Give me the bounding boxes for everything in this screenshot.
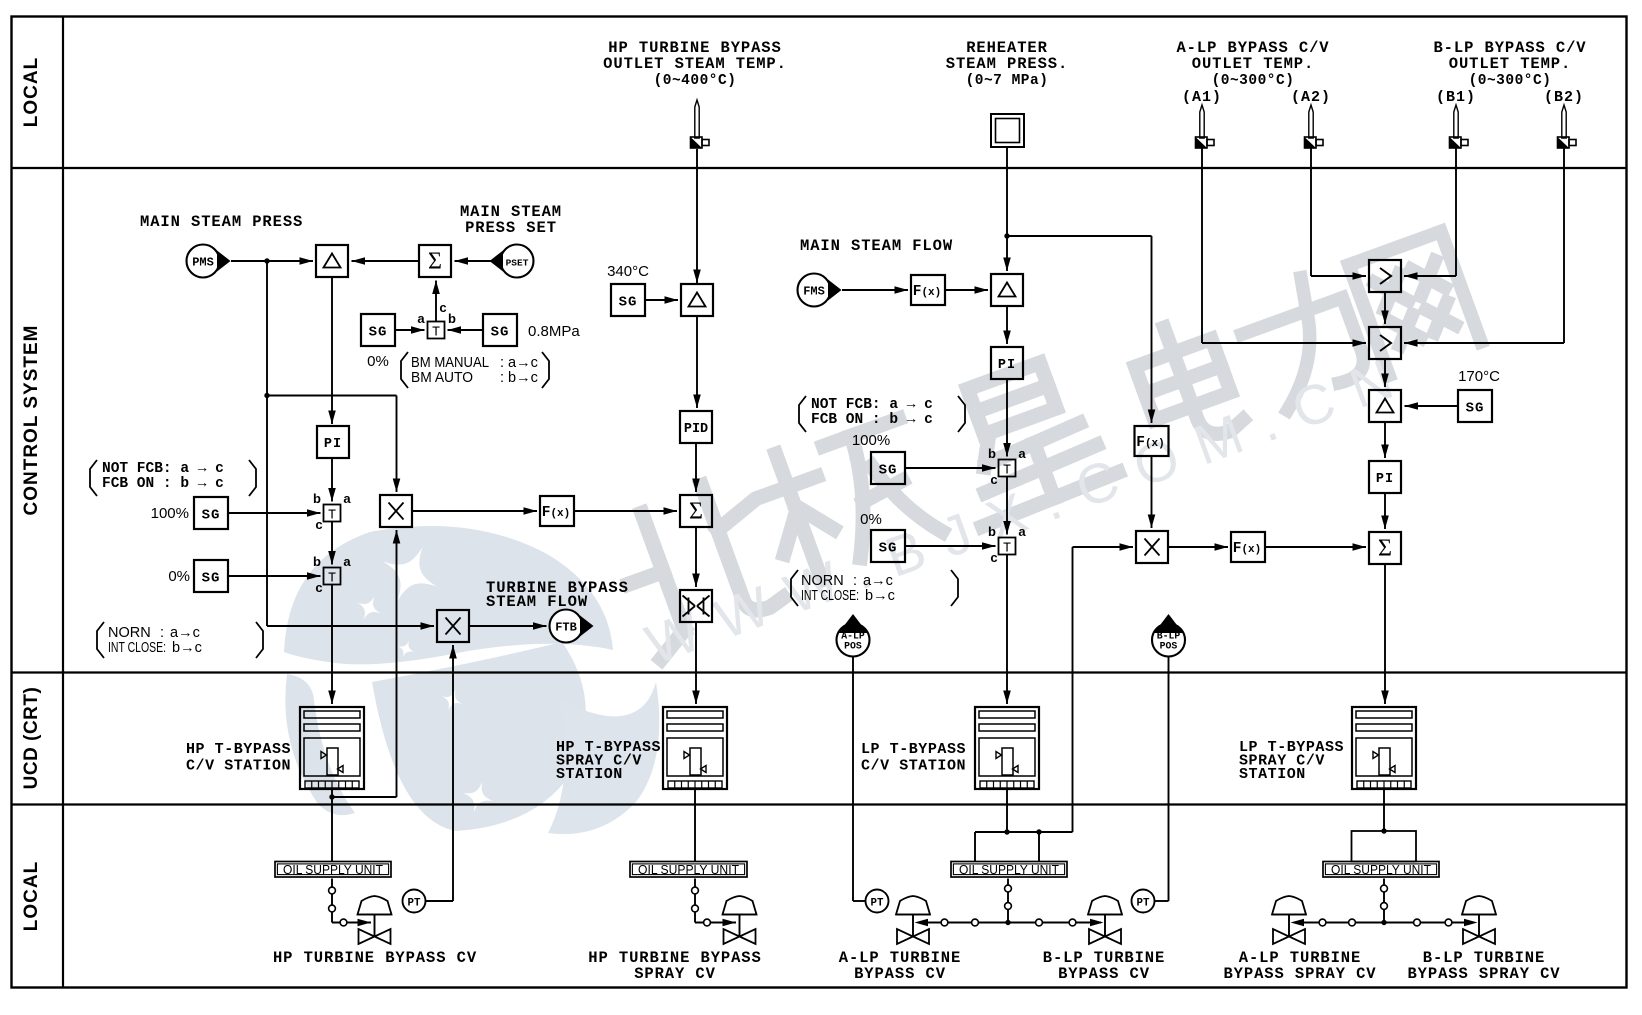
switch T1 left [324,505,341,522]
svg-text:PSET: PSET [506,258,529,269]
block SG 100% left [194,497,228,529]
wire Fx1 to delta3 [945,289,988,291]
svg-text:PI: PI [324,437,342,452]
svg-text:FMS: FMS [803,285,825,299]
block high selector 1 [1369,260,1401,292]
transmitter PT-A [866,890,889,913]
svg-text:C/V STATION: C/V STATION [861,758,966,775]
valve station HP T-BYPASS C/V [300,707,364,789]
svg-text:F(x): F(x) [1136,435,1165,451]
svg-text:a: a [343,491,351,506]
wire PMS to delta1 [231,260,313,262]
svg-text:C/V STATION: C/V STATION [186,758,291,775]
junction to X1 branch [264,393,269,398]
svg-text:: b→c: : b→c [500,370,538,386]
wire T4 to station3 [1006,555,1008,705]
temp sensor HP bypass outlet [695,100,699,138]
svg-text:STATION: STATION [556,766,623,783]
svg-text:NORN: NORN [108,625,151,641]
oil supply unit 1 [275,862,391,878]
valve A-LP turbine bypass CV [896,896,930,915]
svg-text:PT: PT [1137,897,1150,909]
pressure sensor reheater [991,114,1024,147]
block SG 0.8MPa [483,314,517,346]
block SG 0% bias [361,314,395,346]
block PI2 [991,347,1023,379]
wire B1 to high selector 1 [1455,148,1457,276]
wire PSET to sigma1 [455,260,501,262]
block Fx1 flow [911,275,945,305]
svg-text:T: T [432,326,440,341]
svg-text:T: T [328,509,336,524]
wire sigma2 to limiter [695,527,697,587]
block SG 340C [611,284,645,316]
svg-text:: a→c: : a→c [500,355,538,371]
svg-text:a: a [343,554,351,569]
setter PSET [501,245,534,278]
wire station3 output tree [1006,789,1008,832]
svg-text:(0~300°C): (0~300°C) [1212,73,1295,89]
wire delta1 to PI1 [331,277,333,424]
svg-text:SG: SG [491,325,510,341]
svg-text:BYPASS SPRAY CV: BYPASS SPRAY CV [1223,965,1376,983]
pedestal station4 [1352,831,1417,862]
switch T bias [428,322,445,339]
svg-text:F(x): F(x) [1233,541,1262,557]
wire FMS to Fx1 [842,289,908,291]
svg-text:0%: 0% [168,568,190,585]
svg-text:HP T-BYPASS: HP T-BYPASS [186,741,291,758]
svg-text:b→c: b→c [172,640,202,656]
oil supply unit 2 [630,862,747,878]
svg-text:PT: PT [871,897,884,909]
svg-text:SG: SG [1466,401,1485,417]
svg-text:FCB ON : b → c: FCB ON : b → c [102,476,224,492]
temp sensor A1 [1200,105,1204,138]
svg-text:OIL SUPPLY UNIT: OIL SUPPLY UNIT [959,862,1059,877]
wire delta2 to PID [696,316,698,408]
block SG 0% middle [871,530,905,562]
junction reheater branch [1004,233,1009,238]
wire SG170 to delta4 [1405,405,1459,407]
transmitter PT1 [403,890,426,913]
temp sensor B2 [1562,105,1566,138]
wire PI1 to T1 [331,457,333,502]
svg-text:MAIN STEAM PRESS: MAIN STEAM PRESS [140,213,303,231]
svg-text:a→c: a→c [863,573,893,589]
wire junction to delta3 top [1006,236,1008,271]
svg-text:b: b [313,554,321,569]
block delta4 [1369,390,1401,422]
valve HP turbine bypass CV [358,896,392,915]
svg-text:c: c [439,300,446,315]
svg-text:NOT FCB: a → c: NOT FCB: a → c [102,461,224,477]
block X3 multiplier [1136,531,1168,563]
svg-text:STEAM PRESS.: STEAM PRESS. [946,55,1068,73]
temp sensor A2 [1309,105,1313,138]
wire X2 to FTB [469,625,547,627]
svg-text:SG: SG [202,508,221,524]
wire T2 to station1 [331,585,333,705]
wire X3 to Fx3 [1168,546,1228,548]
wire A1 to high selector 2 [1201,148,1203,343]
svg-text:POS: POS [844,641,862,652]
bracket NOT FCB left [90,460,97,496]
svg-text:PI: PI [1376,472,1394,487]
watermark url letters [638,340,1421,676]
svg-text:NOT FCB: a → c: NOT FCB: a → c [811,397,933,413]
valve B-LP turbine bypass spray CV [1462,896,1496,915]
wire sigma1 to delta1 [352,260,420,262]
wire PI3 to sigma3 [1384,493,1386,529]
svg-text:SG: SG [879,541,898,557]
svg-text:100%: 100% [852,432,890,449]
svg-text:(0~300°C): (0~300°C) [1469,73,1552,89]
svg-text:c: c [315,517,322,532]
switch T4 [999,538,1016,555]
svg-text:PI: PI [998,358,1016,373]
svg-text:POS: POS [1160,641,1178,652]
block Fx3 [1231,532,1265,562]
svg-text:INT CLOSE:: INT CLOSE: [801,588,859,604]
wire T3 to T4 [1006,477,1008,535]
wire reheater sensor down [1006,147,1008,236]
block sigma2 [680,495,712,527]
svg-text:CONTROL SYSTEM: CONTROL SYSTEM [21,325,42,516]
valve A-LP turbine bypass spray CV [1272,896,1306,915]
transmitter FMS [798,274,831,307]
oil line OSU3 manifold [1007,879,1009,923]
svg-text:c: c [990,472,997,487]
svg-text:BYPASS CV: BYPASS CV [1058,965,1150,983]
block high selector 2 [1369,327,1401,359]
svg-text:T: T [1003,464,1011,479]
wire SG0 to biasT [395,329,425,331]
wire SG0.8 to biasT [448,329,484,331]
svg-text:PRESS SET: PRESS SET [465,219,557,237]
svg-text:Σ: Σ [428,249,442,275]
svg-text:0.8MPa: 0.8MPa [528,323,580,340]
svg-text:HP TURBINE BYPASS CV: HP TURBINE BYPASS CV [273,949,477,967]
block delta2 [681,284,713,316]
svg-text:a: a [1018,446,1026,461]
block Fx left [540,496,574,526]
wire sel1 to sel2 [1384,292,1386,324]
watermark logo [284,526,659,834]
svg-text:0%: 0% [860,511,882,528]
wire A-LP POS to PT-A [852,657,854,901]
valve HP turbine bypass spray CV [723,896,757,915]
valve station LP T-BYPASS C/V [975,707,1039,789]
svg-text:OUTLET TEMP.: OUTLET TEMP. [1192,55,1314,73]
block PI1 [317,426,349,458]
svg-text:0%: 0% [367,353,389,370]
oil supply unit 3 [951,862,1067,878]
sidebar divider [62,17,64,988]
svg-text:b: b [448,311,456,326]
row divider LOCAL/CONTROL [12,167,1627,169]
wire B-LP POS to PT-B [1168,657,1170,901]
svg-text:a→c: a→c [170,625,200,641]
wire junction to X2 [267,625,434,627]
svg-text:c: c [315,580,322,595]
wire sensor to delta HP temp [696,149,698,283]
valve station LP T-BYPASS SPRAY C/V [1352,707,1416,789]
bracket NOT FCB middle [799,396,806,432]
svg-text:SG: SG [369,325,388,341]
indicator A-LP POS [837,624,870,657]
svg-text:PT: PT [408,897,421,909]
valve station HP T-BYPASS SPRAY C/V [663,707,727,789]
svg-text:LP T-BYPASS: LP T-BYPASS [861,741,966,758]
svg-text:LOCAL: LOCAL [21,57,42,127]
svg-text:BYPASS CV: BYPASS CV [854,965,946,983]
wire SG100m to T3 [905,467,996,469]
wire sel2 to delta4 [1384,359,1386,387]
svg-text:UCD (CRT): UCD (CRT) [21,687,42,790]
temp sensor B1 [1454,105,1458,138]
svg-text:b: b [988,446,996,461]
svg-text:T: T [1003,542,1011,557]
svg-text:OIL SUPPLY UNIT: OIL SUPPLY UNIT [638,862,739,877]
svg-text:OIL SUPPLY UNIT: OIL SUPPLY UNIT [283,862,383,877]
wire delta4 to PI3 [1384,422,1386,458]
svg-text:NORN: NORN [801,573,844,589]
wire Fx to sigma2 [574,510,677,512]
wire station2 to OSU2 [694,789,696,862]
switch T3 [999,460,1016,477]
svg-text:PMS: PMS [192,256,214,270]
svg-text:LOCAL: LOCAL [21,861,42,931]
wire SG0m to T4 [905,545,996,547]
transmitter PMS [187,245,220,278]
svg-text:FTB: FTB [555,621,577,635]
wire A2 to high selector 1 [1310,148,1312,276]
oil supply unit 4 [1323,862,1439,878]
svg-text:OUTLET TEMP.: OUTLET TEMP. [1449,55,1571,73]
wire SG100 to T1 [228,512,321,514]
indicator FTB [550,610,583,643]
wire PI2 to T3 [1006,379,1008,457]
svg-text:100%: 100% [151,505,189,522]
block sigma1 sum [419,245,451,277]
row divider CONTROL/UCD [12,671,1627,673]
wire Fx2 to X3 [1151,456,1153,528]
block delta1 deviation [316,245,348,277]
svg-text:b: b [313,491,321,506]
wire branch to Fx2 [1007,235,1152,237]
svg-text:Σ: Σ [1378,536,1392,562]
svg-text::: : [160,625,164,641]
svg-text:PID: PID [684,422,708,437]
bracket NORN/INT CLOSE left [97,622,104,658]
svg-text:Σ: Σ [689,499,703,525]
wire station4 to pedestal [1383,789,1385,831]
indicator B-LP POS [1152,624,1185,657]
wire delta3 to PI2 [1006,306,1008,344]
wire PID to sigma2 [695,443,697,492]
wire B2 to high selector 2 [1563,148,1565,343]
svg-text:BYPASS SPRAY CV: BYPASS SPRAY CV [1407,965,1560,983]
svg-text:OIL SUPPLY UNIT: OIL SUPPLY UNIT [1331,862,1431,877]
svg-text:OUTLET STEAM TEMP.: OUTLET STEAM TEMP. [603,55,787,73]
block delta3 [991,274,1023,306]
valve B-LP turbine bypass CV [1088,896,1122,915]
svg-text:b→c: b→c [865,588,895,604]
svg-text:STEAM FLOW: STEAM FLOW [486,593,588,611]
wire SG0 to T2 [228,575,321,577]
block SG 170C [1458,390,1492,422]
oil line OSU2 to valve2 [694,879,696,919]
oil line OSU4 manifold [1383,879,1385,923]
wire biasT to sigma1 [435,281,437,322]
wire X1 to Fx left [412,510,537,512]
block PI3 [1369,461,1401,493]
svg-text:c: c [990,550,997,565]
block X2 multiplier [437,610,469,642]
transmitter PT-B [1132,890,1155,913]
bracket BM MANUAL/AUTO [401,352,408,388]
svg-text:F(x): F(x) [913,284,942,300]
svg-text:SG: SG [879,463,898,479]
block X1 multiplier [380,495,412,527]
svg-text:b: b [988,524,996,539]
svg-text:a: a [417,311,425,326]
block PID [680,411,712,443]
block rate limiter [680,590,712,622]
switch T2 left [324,568,341,585]
svg-text:SPRAY CV: SPRAY CV [634,965,716,983]
block SG 0% left [194,560,228,592]
wire station1 to OSU1 with X1 feedback branch [331,789,333,862]
svg-text:FCB ON : b → c: FCB ON : b → c [811,412,933,428]
wire limiter to station2 [695,622,697,704]
svg-text:INT CLOSE:: INT CLOSE: [108,640,166,656]
svg-text:F(x): F(x) [542,505,571,521]
svg-text:a: a [1018,524,1026,539]
block Fx2 [1135,426,1169,456]
svg-text:170°C: 170°C [1458,368,1500,385]
svg-text:BM MANUAL: BM MANUAL [411,355,489,371]
svg-text::: : [853,573,857,589]
oil line OSU1 to valve1 [331,879,333,919]
wire Fx3 to sigma3 [1265,546,1366,548]
svg-text:BM AUTO: BM AUTO [411,370,473,386]
watermark chinese characters [606,232,1481,661]
wire PMS junction down [266,261,268,626]
row divider UCD/LOCAL [12,803,1627,805]
wire manifold feedback to X3 [1072,547,1074,832]
svg-text:(0~400°C): (0~400°C) [654,73,737,89]
wire SG340 to delta2 [645,299,678,301]
junction PMS line [264,258,269,263]
svg-text:MAIN STEAM FLOW: MAIN STEAM FLOW [800,237,953,255]
wire T1 to T2 [331,522,333,565]
block sigma3 [1369,532,1401,564]
svg-text:340°C: 340°C [607,263,649,280]
wire PT1 to X2 [426,900,454,902]
svg-text:(0~7 MPa): (0~7 MPa) [966,73,1049,89]
svg-text:SG: SG [202,571,221,587]
wire sigma3 to station4 [1384,564,1386,704]
svg-text:T: T [328,572,336,587]
block SG 100% middle [871,452,905,484]
svg-text:STATION: STATION [1239,766,1306,783]
svg-text:SG: SG [619,295,638,311]
bracket NORN middle [791,570,798,606]
wire branch to X1 top [267,395,397,397]
